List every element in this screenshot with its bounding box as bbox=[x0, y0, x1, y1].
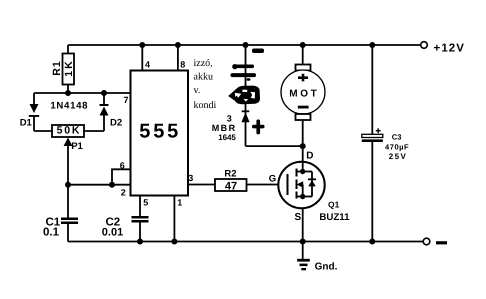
svg-text:D2: D2 bbox=[110, 117, 122, 128]
svg-text:akku: akku bbox=[194, 71, 213, 82]
svg-text:MBR: MBR bbox=[212, 123, 237, 133]
svg-text:P1: P1 bbox=[71, 141, 83, 152]
svg-text:3: 3 bbox=[188, 173, 193, 183]
svg-text:izzó,: izzó, bbox=[194, 58, 213, 69]
svg-text:C3: C3 bbox=[392, 133, 402, 142]
svg-text:G: G bbox=[269, 173, 276, 184]
svg-text:Gnd.: Gnd. bbox=[315, 262, 338, 273]
svg-text:BUZ11: BUZ11 bbox=[319, 212, 350, 223]
svg-text:R2: R2 bbox=[224, 168, 236, 179]
svg-text:25V: 25V bbox=[389, 152, 407, 161]
svg-text:2: 2 bbox=[121, 188, 126, 198]
svg-text:MOT: MOT bbox=[289, 88, 319, 99]
svg-text:1K: 1K bbox=[63, 59, 75, 76]
svg-text:Q1: Q1 bbox=[328, 200, 340, 210]
svg-text:50K: 50K bbox=[57, 125, 82, 137]
svg-text:1645: 1645 bbox=[218, 133, 236, 142]
svg-text:D: D bbox=[306, 150, 313, 161]
svg-text:R1: R1 bbox=[51, 60, 63, 75]
svg-text:1: 1 bbox=[177, 198, 182, 208]
svg-text:470µF: 470µF bbox=[385, 142, 409, 151]
svg-text:S: S bbox=[295, 212, 302, 223]
svg-text:5: 5 bbox=[143, 198, 148, 208]
svg-text:1N4148: 1N4148 bbox=[50, 101, 88, 112]
svg-text:555: 555 bbox=[139, 120, 181, 142]
svg-text:8: 8 bbox=[180, 60, 185, 70]
svg-text:kondi: kondi bbox=[194, 100, 217, 111]
svg-text:D1: D1 bbox=[20, 117, 33, 128]
svg-text:+12V: +12V bbox=[434, 43, 466, 55]
svg-text:47: 47 bbox=[225, 180, 237, 192]
svg-text:7: 7 bbox=[124, 95, 129, 105]
svg-text:0.1: 0.1 bbox=[43, 226, 60, 238]
svg-text:4: 4 bbox=[145, 60, 150, 70]
svg-text:v.: v. bbox=[194, 85, 201, 96]
svg-text:0.01: 0.01 bbox=[102, 226, 123, 238]
svg-text:6: 6 bbox=[120, 161, 125, 171]
